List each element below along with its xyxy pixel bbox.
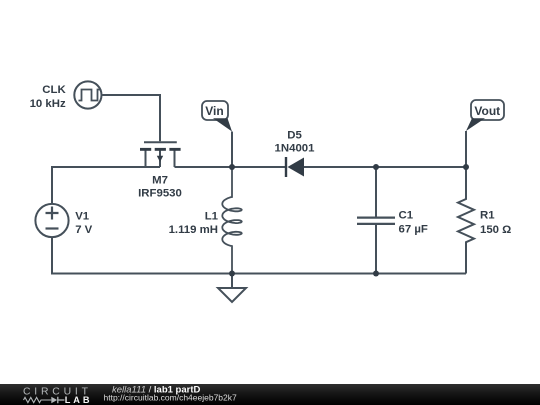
mosfet M7 source leg — [145, 151, 147, 168]
junction node L1 ground — [229, 271, 235, 277]
svg-text:R1: R1 — [480, 210, 495, 222]
junction node C1 ground — [373, 271, 379, 277]
CircuitLab logo squiggle — [24, 397, 52, 402]
CLK source circle — [74, 81, 101, 108]
voltage source V1 circle — [35, 204, 68, 237]
footer bar — [0, 384, 540, 405]
mosfet M7 gate wire plate — [144, 141, 177, 143]
svg-text:V1: V1 — [75, 211, 90, 223]
V1 plus sign — [46, 207, 59, 220]
mosfet M7 drain leg — [174, 151, 176, 168]
wire Vin flag tail — [231, 132, 233, 168]
svg-text:Vin: Vin — [205, 104, 223, 118]
capacitor C1 plates — [357, 218, 395, 224]
svg-text:M7: M7 — [152, 174, 168, 186]
resistor R1 wire and zigzag — [458, 131, 474, 274]
wire M7 drain to diode — [175, 166, 287, 168]
svg-text:http://circuitlab.com/ch4eejeb: http://circuitlab.com/ch4eejeb7b2k7 — [104, 392, 238, 402]
mosfet M7 channel bars — [140, 148, 151, 151]
Vin flag pointer — [213, 118, 232, 131]
svg-text:D5: D5 — [287, 130, 302, 142]
ground symbol — [218, 274, 246, 303]
junction node D5-C1 — [373, 164, 379, 170]
svg-text:67 µF: 67 µF — [399, 224, 428, 236]
svg-text:150 Ω: 150 Ω — [480, 224, 511, 236]
svg-text:CLK: CLK — [42, 84, 66, 96]
svg-text:L1: L1 — [205, 211, 219, 223]
wire top rail left: V1 to M7 source — [52, 167, 160, 203]
diode D5 cathode bar — [285, 157, 287, 177]
wire diode to Vout node — [304, 166, 466, 168]
capacitor C1 top wire — [375, 167, 377, 217]
svg-text:1.119 mH: 1.119 mH — [169, 224, 218, 236]
svg-text:1N4001: 1N4001 — [275, 142, 316, 154]
svg-text:Vout: Vout — [474, 104, 500, 118]
wire V1 bottom to ground rail — [52, 238, 466, 274]
svg-text:LAB: LAB — [65, 395, 93, 405]
svg-text:C1: C1 — [399, 210, 414, 222]
svg-text:10 kHz: 10 kHz — [30, 98, 66, 110]
wire CLK to gate — [102, 95, 160, 141]
Vin flag box — [202, 101, 228, 120]
capacitor C1 bottom wire — [375, 225, 377, 274]
mosfet M7 body arrow — [157, 156, 163, 162]
svg-text:7 V: 7 V — [75, 224, 92, 236]
svg-text:IRF9530: IRF9530 — [138, 188, 182, 200]
Vout flag box — [471, 100, 504, 120]
CircuitLab logo diode — [51, 397, 57, 404]
V1 minus sign — [46, 227, 59, 229]
inductor L1 coil — [222, 167, 241, 274]
Vout flag pointer — [466, 118, 485, 131]
junction node Vin — [229, 164, 235, 170]
mosfet M7 body leg — [159, 151, 161, 168]
diode D5 triangle — [288, 158, 305, 177]
junction node Vout — [463, 164, 469, 170]
CLK square wave glyph — [79, 90, 101, 101]
